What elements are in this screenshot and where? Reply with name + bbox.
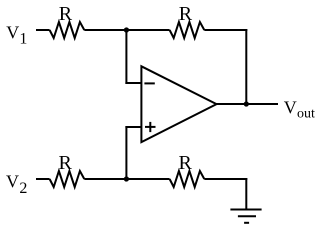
svg-text:V: V bbox=[6, 22, 19, 42]
node Vout label bbox=[284, 98, 315, 122]
wire feedback vertical down to output bbox=[245, 29, 247, 104]
wire inverting node down bbox=[125, 30, 127, 84]
resistor R4 bbox=[170, 171, 205, 187]
svg-text:R: R bbox=[179, 3, 193, 25]
svg-text:V: V bbox=[6, 171, 19, 191]
wire op-amp output bbox=[217, 103, 279, 105]
svg-text:R: R bbox=[59, 3, 73, 25]
node V2 label bbox=[6, 171, 27, 197]
svg-text:R: R bbox=[179, 152, 193, 174]
wire R2 to feedback corner bbox=[204, 29, 247, 31]
wire R4 to ground corner bbox=[204, 178, 247, 180]
op-amp non-inverting input marker (plus) bbox=[145, 122, 156, 132]
wire to inverting input bbox=[125, 82, 141, 84]
svg-text:out: out bbox=[297, 106, 315, 121]
node V1 label bbox=[6, 22, 27, 47]
svg-text:V: V bbox=[284, 98, 297, 118]
svg-text:2: 2 bbox=[19, 180, 27, 197]
ground bbox=[230, 210, 261, 223]
wire R1 to inverting node to R2 bbox=[84, 29, 169, 31]
wire to non-inverting input bbox=[125, 126, 141, 128]
wire non-inverting node up bbox=[125, 126, 127, 179]
junction: inverting input node bbox=[124, 27, 129, 32]
resistor R1 bbox=[50, 22, 85, 38]
wire R3 to non-inverting node to R4 bbox=[84, 178, 169, 180]
wire V1 lead bbox=[36, 29, 50, 31]
wire down to ground bbox=[245, 178, 247, 210]
op-amp U1 bbox=[141, 66, 216, 142]
svg-text:R: R bbox=[59, 152, 73, 174]
svg-text:1: 1 bbox=[19, 30, 27, 47]
resistor R2 bbox=[170, 22, 205, 38]
op-amp inverting input marker (minus) bbox=[144, 82, 154, 84]
wire V2 lead bbox=[36, 178, 50, 180]
junction: non-inverting input node bbox=[124, 176, 129, 181]
resistor R3 bbox=[50, 171, 85, 187]
junction: output node bbox=[244, 101, 249, 106]
